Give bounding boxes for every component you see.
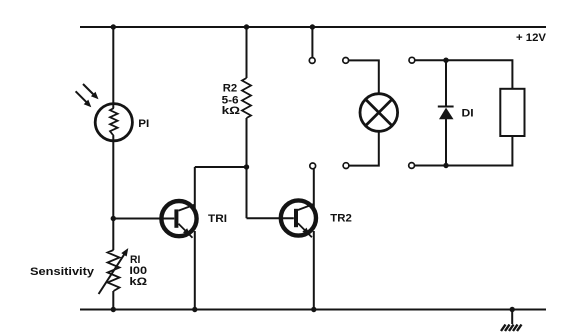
svg-text:kΩ: kΩ <box>222 105 241 117</box>
svg-text:+ 12V: + 12V <box>516 32 547 44</box>
svg-text:Sensitivity: Sensitivity <box>30 266 95 278</box>
svg-text:R2: R2 <box>223 82 237 94</box>
svg-text:TR2: TR2 <box>330 213 352 225</box>
svg-text:TRI: TRI <box>208 213 227 225</box>
svg-text:kΩ: kΩ <box>129 276 147 288</box>
svg-text:PI: PI <box>138 118 149 130</box>
svg-text:I00: I00 <box>129 265 147 277</box>
svg-text:DI: DI <box>462 108 474 120</box>
